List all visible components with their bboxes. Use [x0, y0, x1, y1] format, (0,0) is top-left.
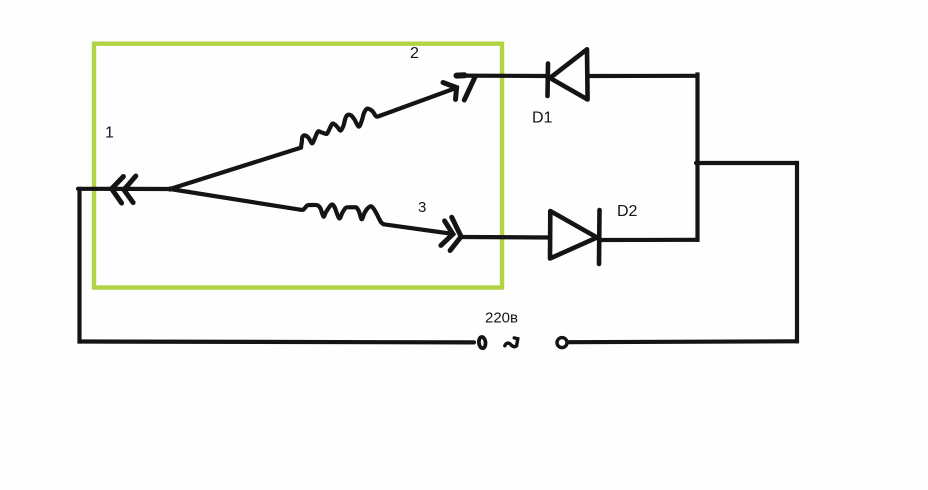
diode D1 cathode bar [545, 64, 550, 97]
wire: winding to connector 3 diagonal [384, 224, 450, 233]
diode D1 triangle [550, 49, 588, 99]
wire: winding to connector 2 diagonal [380, 88, 457, 116]
wire: terminal 2 to D1 (with thick start blob) [457, 72, 465, 78]
inductor winding upper (primary half 2) [301, 109, 380, 148]
wire: left horizontal into junction [78, 187, 170, 191]
terminal socket (open circle) [557, 338, 567, 348]
wire: middle tap horizontal [696, 161, 797, 165]
diode D2 triangle [550, 211, 597, 259]
svg-text:1: 1 [105, 125, 114, 142]
wire: bottom right horizontal [569, 339, 798, 344]
wire: bottom left horizontal [80, 339, 475, 344]
svg-text:2: 2 [410, 45, 419, 62]
diode D2 cathode bar [597, 210, 602, 264]
wire: lower diagonal (junction to winding) [170, 189, 301, 210]
connector arrow 2 (chevron) [443, 77, 475, 100]
connector 2 slash stroke [464, 77, 475, 100]
wire: connector 3 to D2 [462, 235, 549, 240]
wire: right vertical (node column) [695, 75, 699, 240]
wire: D2 cathode to right node [601, 238, 698, 242]
svg-text:3: 3 [418, 199, 426, 216]
terminal plug (oval) [478, 337, 486, 349]
connector arrow 3 (double chevron right) [441, 217, 461, 250]
connector arrow 1 (left, double chevron) [112, 176, 136, 203]
wire: right outer vertical [795, 163, 799, 341]
svg-text:220в: 220в [485, 310, 518, 327]
wire: left vertical [77, 189, 81, 342]
AC source tilde [505, 338, 518, 347]
wire: D1 anode to right node [589, 74, 698, 78]
green selection box [94, 44, 502, 288]
node: junction of windings [167, 186, 172, 191]
wire: upper diagonal (junction to winding) [170, 148, 301, 189]
svg-text:D1: D1 [532, 110, 553, 127]
inductor winding lower (primary half 3) [301, 204, 384, 224]
svg-text:D2: D2 [617, 203, 638, 220]
